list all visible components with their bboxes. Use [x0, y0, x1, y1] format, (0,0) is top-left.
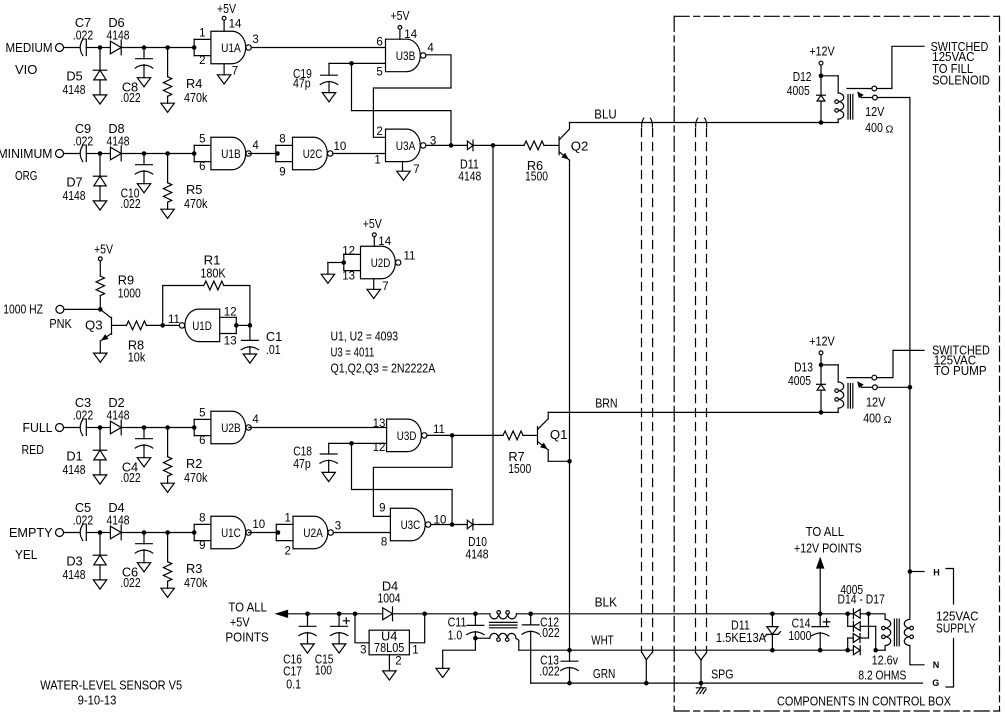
- resistor R3 (470k): [167, 533, 169, 562]
- svg-text:1000 HZ: 1000 HZ: [3, 301, 43, 316]
- svg-text:6: 6: [199, 435, 205, 447]
- svg-text:4: 4: [252, 140, 259, 152]
- svg-text:U2B: U2B: [221, 421, 241, 435]
- junction: [165, 425, 170, 430]
- svg-text:0.1: 0.1: [286, 677, 301, 692]
- svg-text:Ω: Ω: [886, 123, 894, 135]
- svg-text:5: 5: [376, 67, 382, 79]
- junction: [450, 522, 455, 527]
- junction: [818, 612, 823, 617]
- junction: [276, 530, 281, 535]
- cable pair 1 wire b: [650, 118, 652, 127]
- svg-text:EMPTY: EMPTY: [9, 525, 53, 540]
- svg-text:+12V: +12V: [809, 334, 835, 349]
- ground: [321, 274, 334, 283]
- svg-text:.022: .022: [73, 133, 93, 148]
- ground: [93, 95, 106, 104]
- svg-text:4148: 4148: [458, 169, 481, 184]
- svg-text:8.2 OHMS: 8.2 OHMS: [858, 668, 906, 683]
- svg-text:U2C: U2C: [303, 147, 323, 161]
- svg-text:1.0: 1.0: [448, 628, 463, 643]
- gate U2D input bracket: [344, 253, 361, 255]
- resistor R9 (1000): [99, 261, 101, 276]
- capacitor C1 (.01): [249, 325, 251, 340]
- svg-text:14: 14: [229, 19, 242, 31]
- svg-text:1000: 1000: [118, 286, 141, 301]
- ground at U1A pin 7: [223, 64, 225, 75]
- diode D11 TVS (1.5KE13A): [770, 612, 775, 617]
- gate U input bracket: [194, 418, 211, 420]
- resistor R5 (470k): [167, 154, 169, 183]
- svg-text:11: 11: [168, 314, 180, 326]
- transistor Q2 (2N2222A): [558, 137, 560, 155]
- svg-text:N: N: [933, 660, 940, 670]
- svg-text:47p: 47p: [293, 456, 311, 471]
- ground: [161, 209, 174, 218]
- junction: [866, 612, 871, 617]
- wire relay K2 common to 125VAC hot: [877, 386, 910, 388]
- junction: [491, 143, 496, 148]
- ground: [93, 580, 106, 589]
- svg-text:47p: 47p: [293, 76, 311, 91]
- +12V rail arrow: [817, 558, 824, 568]
- svg-text:1: 1: [285, 513, 291, 525]
- wire relay K1 common to 125VAC hot: [877, 97, 910, 99]
- svg-text:4148: 4148: [107, 133, 130, 148]
- wire: [875, 626, 877, 650]
- junction: [165, 151, 170, 156]
- ground: [243, 354, 256, 363]
- svg-text:1500: 1500: [525, 169, 548, 184]
- wire: [328, 262, 344, 264]
- svg-text:400: 400: [863, 411, 881, 426]
- svg-text:470k: 470k: [184, 196, 208, 211]
- junction: [275, 151, 280, 156]
- junction: [644, 681, 649, 686]
- svg-text:4148: 4148: [63, 462, 86, 477]
- ground at U3A pin 7: [402, 161, 404, 171]
- svg-text:BRN: BRN: [595, 395, 617, 410]
- svg-text:SOLENOID: SOLENOID: [932, 74, 990, 88]
- junction: [142, 530, 147, 535]
- wire U3A.3 feedback to U3B.5: [352, 63, 452, 145]
- svg-text:3: 3: [335, 520, 341, 532]
- svg-text:.022: .022: [120, 196, 140, 211]
- capacitor C10 (shunt .022): [143, 154, 145, 165]
- diode D11 (4148): [451, 144, 467, 146]
- transformer T1 secondary winding (12.6v 8.2 OHMS): [885, 619, 891, 645]
- diode D17 (bridge): [853, 646, 860, 655]
- gate U input bracket: [194, 144, 211, 146]
- junction: [567, 681, 572, 686]
- svg-text:R3: R3: [186, 561, 202, 576]
- svg-text:10k: 10k: [128, 350, 146, 365]
- ground: [161, 483, 174, 492]
- svg-text:1.5KE13A: 1.5KE13A: [716, 630, 767, 645]
- svg-text:14: 14: [378, 236, 391, 248]
- wire +5V rail: [288, 613, 383, 615]
- op-gate U1D (NAND mirrored): [185, 309, 220, 342]
- diode D13 (4005): [820, 365, 822, 384]
- control box border (dash-dot): [673, 16, 675, 711]
- svg-text:U2A: U2A: [303, 526, 323, 540]
- svg-text:12V: 12V: [866, 394, 885, 409]
- capacitor C3 (series .022): [85, 420, 87, 436]
- svg-text:4148: 4148: [63, 188, 86, 203]
- svg-text:1004: 1004: [378, 591, 401, 606]
- diode D6 (series 4148): [102, 47, 110, 49]
- +5V rail arrow: [277, 610, 288, 617]
- svg-text:BLK: BLK: [595, 595, 618, 610]
- terminal MINIMUM (ORG): [56, 150, 64, 158]
- ground: [436, 668, 449, 677]
- capacitor C15 (100, polarized): [338, 614, 340, 627]
- relay K1 contacts: [847, 88, 872, 90]
- svg-text:+5V: +5V: [390, 8, 409, 23]
- regulator U4 (78L05): [355, 614, 369, 643]
- ground: [322, 93, 335, 102]
- svg-text:H: H: [933, 567, 940, 577]
- wire D10/D11 common net: [473, 145, 493, 524]
- svg-text:U3A: U3A: [396, 139, 416, 153]
- svg-text:4148: 4148: [107, 407, 130, 422]
- ground: [137, 563, 150, 572]
- capacitor C7 (series .022): [85, 40, 87, 56]
- svg-text:YEL: YEL: [15, 547, 37, 562]
- junction: [873, 648, 878, 653]
- svg-text:5: 5: [199, 408, 205, 420]
- resistor R1 (180K): [163, 286, 204, 326]
- svg-text:3: 3: [360, 645, 366, 657]
- ground at U4 pin 2: [388, 655, 390, 671]
- diode D12 (4005): [820, 76, 822, 95]
- wire U2A.3 to U3C.8: [333, 532, 390, 534]
- wire relay K2 NO contact to pump: [877, 350, 924, 377]
- svg-text:U3 = 4011: U3 = 4011: [331, 345, 375, 360]
- svg-text:2: 2: [376, 126, 382, 138]
- svg-text:POINTS: POINTS: [225, 629, 268, 644]
- svg-text:400: 400: [865, 120, 883, 135]
- junction: [192, 151, 197, 156]
- transistor Q3 (2N2222A): [111, 317, 113, 334]
- resistor R4 (470k): [167, 48, 169, 77]
- inductor L1 choke bottom winding: [475, 637, 489, 639]
- junction: [567, 648, 572, 653]
- junction: [819, 410, 824, 415]
- diode D4 (series 4148): [102, 532, 110, 534]
- svg-text:MEDIUM: MEDIUM: [6, 40, 53, 55]
- svg-text:TO ALL: TO ALL: [228, 600, 267, 615]
- wire: [473, 144, 493, 146]
- wire Q1/Q2 emitter bus to WHT: [569, 160, 571, 650]
- wire: [86, 153, 98, 155]
- ground at U2D pin 7: [373, 279, 375, 290]
- 125VAC supply bracket: [946, 569, 954, 688]
- capacitor C5 (series .022): [85, 525, 87, 541]
- svg-text:180K: 180K: [200, 266, 225, 281]
- wire U1B.4 to U2C: [249, 153, 278, 155]
- svg-text:3: 3: [252, 34, 258, 46]
- svg-text:1: 1: [199, 28, 205, 40]
- wire U2C.10 to U3A.1: [333, 153, 386, 155]
- relay K2 core: [847, 384, 849, 409]
- cable pair 1 convergence: [642, 652, 647, 660]
- transistor Q1 (2N2222A): [537, 427, 539, 445]
- svg-text:VIO: VIO: [15, 62, 37, 77]
- wire GRN rail: [531, 682, 923, 684]
- junction: [353, 612, 358, 617]
- svg-text:.022: .022: [120, 575, 140, 590]
- svg-text:13: 13: [342, 271, 355, 283]
- power +5V at U2D pin 14: [372, 233, 376, 237]
- svg-text:12: 12: [224, 307, 237, 319]
- junction: [98, 45, 103, 50]
- svg-text:13: 13: [224, 335, 237, 347]
- resistor R6 (1500): [493, 144, 524, 146]
- svg-text:.022: .022: [539, 625, 559, 640]
- ground: [137, 458, 150, 467]
- resistor R7 (1500): [452, 434, 503, 436]
- svg-text:U2D: U2D: [371, 256, 391, 270]
- wire U3B.5 net: [352, 62, 386, 64]
- junction: [349, 61, 354, 66]
- wire: [64, 47, 80, 49]
- svg-text:4148: 4148: [107, 27, 130, 42]
- terminal FULL (RED): [56, 424, 64, 432]
- power +5V at R9: [98, 257, 102, 261]
- junction: [305, 612, 310, 617]
- svg-text:12.6v: 12.6v: [872, 653, 899, 668]
- junction: [342, 260, 347, 265]
- diode D4 (1004): [383, 608, 393, 620]
- svg-text:9: 9: [199, 540, 205, 552]
- svg-text:4148: 4148: [107, 512, 130, 527]
- svg-text:U1A: U1A: [221, 41, 241, 55]
- svg-text:+12V: +12V: [809, 44, 835, 59]
- svg-text:8: 8: [279, 134, 285, 146]
- relay K1 core: [847, 95, 849, 120]
- svg-text:+5V: +5V: [217, 1, 236, 16]
- svg-text:U1B: U1B: [221, 147, 241, 161]
- wire: [64, 532, 80, 534]
- capacitor C19 (47p): [329, 62, 352, 64]
- terminal EMPTY (YEL): [56, 529, 64, 537]
- svg-text:+12V POINTS: +12V POINTS: [794, 541, 862, 556]
- junction: [192, 425, 197, 430]
- ground: [94, 353, 107, 362]
- svg-text:6: 6: [376, 36, 382, 48]
- svg-text:U1D: U1D: [192, 319, 212, 333]
- wire: [86, 47, 98, 49]
- svg-text:7: 7: [413, 164, 419, 176]
- junction: [473, 612, 478, 617]
- svg-text:470k: 470k: [184, 90, 208, 105]
- ground: [301, 644, 314, 653]
- junction: [165, 45, 170, 50]
- capacitor C9 (series .022): [85, 146, 87, 162]
- capacitor C13 (.022): [569, 650, 571, 661]
- capacitor C4 (shunt .022): [143, 428, 145, 439]
- ground: [137, 184, 150, 193]
- wire: [64, 427, 80, 429]
- svg-text:BLU: BLU: [594, 107, 616, 122]
- svg-text:+5V: +5V: [94, 241, 113, 256]
- svg-text:1000: 1000: [788, 628, 811, 643]
- svg-text:.022: .022: [73, 27, 93, 42]
- svg-text:2: 2: [199, 55, 205, 67]
- svg-text:4148: 4148: [63, 82, 86, 97]
- wire: [393, 613, 490, 615]
- junction: [819, 74, 824, 79]
- wire 125VAC hot vertical: [909, 98, 911, 620]
- ground: [332, 644, 345, 653]
- diode D2 (series 4148): [102, 427, 110, 429]
- resistor R8 (10k): [112, 324, 127, 326]
- junction: [845, 612, 850, 617]
- ground: [93, 201, 106, 210]
- svg-text:.022: .022: [73, 407, 93, 422]
- transformer T1 primary winding (125VAC): [904, 619, 910, 645]
- junction: [908, 569, 913, 574]
- svg-text:4: 4: [427, 42, 434, 54]
- svg-text:9-10-13: 9-10-13: [78, 692, 117, 707]
- svg-text:10: 10: [334, 141, 347, 153]
- svg-text:D12: D12: [793, 69, 812, 84]
- svg-text:MINIMUM: MINIMUM: [0, 146, 53, 161]
- op-gate U2C (NAND): [293, 137, 328, 170]
- svg-text:2: 2: [395, 655, 401, 667]
- diode D8 (series 4148): [102, 153, 110, 155]
- power +5V at U3B pin 14: [398, 26, 402, 30]
- junction: [142, 425, 147, 430]
- junction: [192, 530, 197, 535]
- op-gate U1B (NAND): [211, 137, 246, 170]
- earth ground SPG: [696, 688, 706, 694]
- op-gate U1A (NAND): [211, 31, 246, 64]
- svg-text:470k: 470k: [184, 470, 208, 485]
- svg-text:ORG: ORG: [15, 168, 37, 183]
- terminal 1000 HZ (PNK): [56, 305, 64, 313]
- junction: [349, 441, 354, 446]
- svg-text:4005: 4005: [788, 373, 811, 388]
- wire U4 pin 1: [409, 614, 424, 643]
- svg-text:Q1,Q2,Q3 = 2N2222A: Q1,Q2,Q3 = 2N2222A: [331, 360, 436, 375]
- power +5V at U1A pin 14: [222, 16, 226, 20]
- gate U input bracket: [194, 38, 211, 40]
- op-gate U1C (NAND): [211, 516, 246, 549]
- svg-text:RED: RED: [22, 442, 44, 457]
- wire AC1 to secondary: [869, 614, 886, 620]
- diode D3 (shunt 4148): [99, 533, 101, 556]
- svg-text:.022: .022: [539, 663, 559, 678]
- wire U3D.12 net: [352, 442, 387, 444]
- junction: [908, 385, 913, 390]
- ground: [137, 78, 150, 87]
- svg-text:78L05: 78L05: [374, 640, 404, 655]
- svg-text:4148: 4148: [466, 547, 489, 562]
- wire: [121, 532, 194, 534]
- svg-text:8: 8: [381, 536, 387, 548]
- ground: [322, 472, 335, 481]
- inductor L1 choke top winding: [490, 614, 517, 619]
- svg-text:COMPONENTS IN CONTROL BOX: COMPONENTS IN CONTROL BOX: [777, 694, 951, 709]
- svg-text:Q2: Q2: [571, 138, 589, 153]
- diode D10 (4148): [467, 520, 473, 529]
- op-gate U3D (NAND): [387, 419, 422, 452]
- svg-text:5: 5: [199, 134, 205, 146]
- svg-text:R4: R4: [186, 76, 202, 91]
- wire U3C.10 feedback to U3D.12: [352, 443, 453, 524]
- svg-text:SUPPLY: SUPPLY: [936, 620, 976, 635]
- svg-text:4148: 4148: [63, 567, 86, 582]
- wire WHT rail: [519, 649, 854, 651]
- svg-text:SPG: SPG: [711, 667, 733, 682]
- junction: [98, 151, 103, 156]
- diode D5 (shunt 4148): [99, 48, 101, 71]
- diode D7 (shunt 4148): [99, 154, 101, 177]
- wire to H terminal: [910, 571, 924, 573]
- capacitor C14 (1000, polarized): [818, 648, 823, 653]
- gate U1D input bracket: [220, 316, 237, 318]
- wire: [64, 308, 98, 310]
- svg-text:4: 4: [252, 414, 259, 426]
- relay K1 coil (12V 400 ohm): [821, 75, 838, 77]
- svg-text:U1C: U1C: [221, 526, 241, 540]
- wire: [121, 47, 194, 49]
- junction: [142, 151, 147, 156]
- wire BLK rail: [517, 613, 848, 615]
- ground: [161, 588, 174, 597]
- svg-text:470k: 470k: [184, 575, 208, 590]
- transformer T1 core: [893, 619, 895, 646]
- svg-text:7: 7: [232, 65, 238, 77]
- svg-text:.01: .01: [266, 342, 281, 357]
- svg-text:WATER-LEVEL SENSOR V5: WATER-LEVEL SENSOR V5: [40, 677, 182, 692]
- wire C11 ground branch: [443, 638, 476, 668]
- svg-text:WHT: WHT: [591, 632, 613, 647]
- cable pair 2 wire a: [696, 118, 698, 127]
- junction: [98, 307, 103, 312]
- svg-text:13: 13: [373, 418, 386, 430]
- svg-text:1: 1: [412, 645, 418, 657]
- cable pair 1 wire a: [642, 118, 644, 127]
- capacitor C8 (shunt .022): [143, 48, 145, 59]
- junction: [160, 323, 165, 328]
- op-gate U3A (NAND): [386, 129, 421, 162]
- svg-text:U1, U2 = 4093: U1, U2 = 4093: [331, 329, 399, 344]
- diode D14 (bridge): [848, 613, 854, 615]
- node BRN wire: [548, 411, 821, 413]
- junction: [248, 323, 253, 328]
- relay K2 contacts: [847, 377, 872, 379]
- junction: [449, 143, 454, 148]
- svg-text:10: 10: [252, 519, 265, 531]
- wire: [86, 532, 98, 534]
- svg-text:TO ALL: TO ALL: [806, 524, 845, 539]
- junction: [234, 323, 239, 328]
- inductor L1 core: [490, 621, 518, 623]
- svg-text:11: 11: [433, 424, 445, 436]
- wire U2B.4 to U3D.13: [249, 427, 387, 429]
- wire: [121, 427, 194, 429]
- junction: [192, 45, 197, 50]
- cable pair 2 wire b: [705, 118, 707, 127]
- svg-text:7: 7: [382, 281, 388, 293]
- junction: [165, 530, 170, 535]
- relay K2 coil (12V 400 ohm): [821, 364, 838, 366]
- svg-text:2: 2: [285, 546, 291, 558]
- terminal MEDIUM (VIO): [56, 44, 64, 52]
